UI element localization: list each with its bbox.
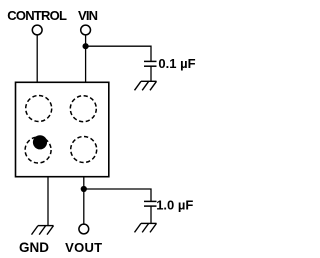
wire CONTROL to package	[36, 35, 38, 82]
svg-text:1.0 µF: 1.0 µF	[156, 198, 193, 213]
svg-text:0.1 µF: 0.1 µF	[158, 56, 195, 71]
junction dot VIN node	[83, 43, 89, 49]
package outline U1 (top view)	[16, 82, 109, 176]
pad A1 (dashed)	[26, 96, 52, 122]
terminal VOUT	[79, 224, 89, 234]
wire C1 to ground	[150, 66, 152, 81]
svg-text:VIN: VIN	[78, 8, 98, 23]
ground under C2	[135, 223, 157, 232]
wire package to GND ground	[47, 177, 49, 226]
capacitor C1 0.1 uF	[144, 61, 157, 66]
svg-text:GND: GND	[19, 240, 49, 255]
wire package to VOUT	[83, 177, 85, 224]
terminal VIN	[81, 25, 91, 35]
junction dot VOUT node	[81, 186, 87, 192]
svg-text:CONTROL: CONTROL	[7, 8, 67, 23]
ground under C1	[135, 81, 157, 90]
pad A2 (dashed)	[70, 96, 96, 122]
pin 1 marker (filled)	[33, 135, 47, 149]
wire VOUT node to C2	[84, 189, 151, 201]
pad B1 (dashed)	[25, 137, 51, 163]
wire C2 to ground	[150, 206, 152, 223]
capacitor C2 1.0 uF	[144, 201, 157, 206]
svg-text:VOUT: VOUT	[65, 240, 102, 255]
wire VIN node to C1	[86, 46, 151, 61]
terminal CONTROL	[32, 25, 42, 35]
pad B2 (dashed)	[71, 137, 97, 163]
ground GND	[32, 226, 54, 235]
wire VIN to package	[85, 35, 87, 82]
